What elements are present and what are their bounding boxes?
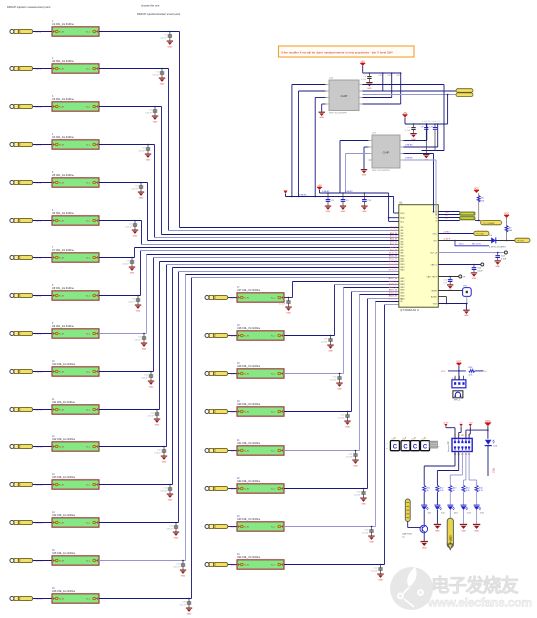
svg-text:U10 CNL_1to 3rdOne: U10 CNL_1to 3rdOne <box>52 363 76 366</box>
svg-text:U17 CNL_Vin 3rdOne: U17 CNL_Vin 3rdOne <box>237 289 261 292</box>
svg-text:C: C <box>423 444 428 450</box>
svg-text:C: C <box>393 444 398 450</box>
svg-text:GND: GND <box>328 350 333 352</box>
svg-text:4.7k: 4.7k <box>479 490 483 492</box>
svg-text:U22: U22 <box>412 439 415 441</box>
svg-text:U21 CNL_Vin 3rdOne: U21 CNL_Vin 3rdOne <box>237 442 261 445</box>
svg-text:GND: GND <box>133 235 138 237</box>
svg-text:U1: U1 <box>399 200 403 204</box>
svg-text:N_C: N_C <box>271 374 276 376</box>
svg-text:GND: GND <box>153 121 158 123</box>
svg-text:N_C: N_C <box>86 145 91 147</box>
svg-text:GND: GND <box>130 272 135 274</box>
svg-text:GND: GND <box>367 88 372 90</box>
svg-text:1 NA R6: 1 NA R6 <box>405 157 413 160</box>
svg-text:GND: GND <box>341 211 346 213</box>
svg-text:N_C: N_C <box>86 221 91 223</box>
svg-text:0.1uF: 0.1uF <box>477 270 483 272</box>
svg-text:AN2_IN: AN2_IN <box>390 229 398 232</box>
svg-text:N_C: N_C <box>271 336 276 338</box>
svg-text:U23 CNL_Vin 3rdOne: U23 CNL_Vin 3rdOne <box>237 518 261 521</box>
svg-text:0.01uF: 0.01uF <box>179 604 186 606</box>
svg-text:GND: GND <box>461 530 466 532</box>
svg-text:SDA: SDA <box>400 217 405 220</box>
svg-text:0.01uF: 0.01uF <box>134 339 141 341</box>
svg-text:N_IN: N_IN <box>59 107 64 109</box>
svg-text:CAP_2: CAP_2 <box>430 263 437 266</box>
svg-text:GND: GND <box>187 613 192 615</box>
svg-text:U4 CNL_1to 3rdOne: U4 CNL_1to 3rdOne <box>52 136 74 139</box>
svg-text:GND: GND <box>495 266 500 268</box>
svg-text:N_IN: N_IN <box>244 374 249 376</box>
svg-text:N_C: N_C <box>86 599 91 601</box>
svg-text:GND: GND <box>337 388 342 390</box>
svg-text:AN8_IN: AN8_IN <box>390 246 398 249</box>
svg-text:GND: GND <box>174 537 179 539</box>
svg-text:N_C: N_C <box>86 523 91 525</box>
svg-text:GND: GND <box>286 312 291 314</box>
svg-text:N_IN: N_IN <box>59 296 64 298</box>
svg-text:0.01uF: 0.01uF <box>138 150 145 152</box>
svg-text:U23: U23 <box>422 439 425 441</box>
svg-text:0.01uF: 0.01uF <box>131 188 138 190</box>
svg-text:0.01uF: 0.01uF <box>321 341 328 343</box>
svg-text:U14 CNL_1to 3rdOne: U14 CNL_1to 3rdOne <box>52 514 76 517</box>
svg-text:AN21_IN: AN21_IN <box>389 289 398 292</box>
svg-text:AN4_IN: AN4_IN <box>390 235 398 238</box>
svg-text:GND: GND <box>149 386 154 388</box>
svg-text:0.01uF: 0.01uF <box>152 74 159 76</box>
svg-text:电子发烧友: 电子发烧友 <box>431 575 519 596</box>
svg-text:GND: GND <box>422 547 427 549</box>
svg-text:U1 CNL_1to 3rdOne: U1 CNL_1to 3rdOne <box>52 23 74 26</box>
svg-text:GND: GND <box>361 503 366 505</box>
svg-text:N_IN: N_IN <box>244 298 249 300</box>
svg-text:1k: 1k <box>427 490 429 492</box>
svg-text:N_C: N_C <box>271 489 276 491</box>
svg-text:GND: GND <box>155 424 160 426</box>
svg-text:N_IN: N_IN <box>59 599 64 601</box>
svg-text:GND: GND <box>168 46 173 48</box>
svg-text:OUT_A: OUT_A <box>430 251 437 254</box>
svg-text:AN23_IN: AN23_IN <box>389 295 398 298</box>
svg-text:1 NA R5: 1 NA R5 <box>405 144 413 147</box>
svg-text:0.01uF: 0.01uF <box>362 532 369 534</box>
svg-text:www.elecfans.com: www.elecfans.com <box>427 596 532 610</box>
svg-text:GND: GND <box>142 348 147 350</box>
svg-text:N_C: N_C <box>271 451 276 453</box>
svg-text:2-R8.8: 2-R8.8 <box>444 231 451 233</box>
svg-text:GND: GND <box>362 211 367 213</box>
svg-text:VCC: VCC <box>456 361 461 363</box>
svg-text:TP_OSC: TP_OSC <box>476 234 485 236</box>
svg-text:TP_INT: TP_INT <box>517 241 525 243</box>
svg-text:4.7k: 4.7k <box>440 490 444 492</box>
svg-text:N_IN: N_IN <box>59 447 64 449</box>
svg-text:0.01uF: 0.01uF <box>346 456 353 458</box>
svg-text:GND: GND <box>146 159 151 161</box>
svg-text:CAB-PS(P): CAB-PS(P) <box>402 533 412 536</box>
svg-text:U20 CNL_Vin 3rdOne: U20 CNL_Vin 3rdOne <box>237 403 261 406</box>
svg-text:C: C <box>413 444 418 450</box>
svg-text:N_C: N_C <box>86 410 91 412</box>
svg-text:AN22_IN: AN22_IN <box>389 292 398 295</box>
svg-text:4.7k: 4.7k <box>466 490 470 492</box>
svg-text:GND: GND <box>472 278 477 280</box>
svg-text:OSC: OSC <box>432 233 437 235</box>
svg-text:N_C: N_C <box>86 485 91 487</box>
svg-text:N_C: N_C <box>86 107 91 109</box>
svg-text:N_IN: N_IN <box>244 336 249 338</box>
svg-text:+5V: +5V <box>445 212 449 214</box>
svg-text:U20: U20 <box>391 439 394 441</box>
svg-text:N_C: N_C <box>86 69 91 71</box>
svg-text:TP_COMMS: TP_COMMS <box>483 223 495 225</box>
svg-text:GND: GND <box>369 541 374 543</box>
svg-text:QT 60248-AS G: QT 60248-AS G <box>400 308 419 312</box>
svg-text:DPACP injection measurement po: DPACP injection measurement point <box>7 5 51 9</box>
svg-text:N_C: N_C <box>86 334 91 336</box>
svg-text:TP-LED3: TP-LED3 <box>451 535 453 545</box>
svg-text:AN14_IN: AN14_IN <box>389 263 398 266</box>
svg-text:GND: GND <box>168 499 173 501</box>
svg-text:GND: GND <box>160 83 165 85</box>
svg-text:N_C: N_C <box>271 298 276 300</box>
svg-text:U21: U21 <box>402 439 405 441</box>
svg-text:N_C: N_C <box>86 183 91 185</box>
svg-text:U18 CNL_Vin 3rdOne: U18 CNL_Vin 3rdOne <box>237 327 261 330</box>
svg-text:N_IN: N_IN <box>59 561 64 563</box>
svg-text:RED: RED <box>492 468 494 473</box>
svg-text:1k: 1k <box>453 490 455 492</box>
svg-text:U12 CNL_1to 3rdOne: U12 CNL_1to 3rdOne <box>52 438 76 441</box>
svg-text:1 NA R4: 1 NA R4 <box>299 193 307 196</box>
svg-text:SENS: SENS <box>431 290 437 292</box>
svg-text:AN9_IN: AN9_IN <box>390 249 398 252</box>
svg-text:AN12_IN: AN12_IN <box>389 257 398 260</box>
svg-text:AN19_IN: AN19_IN <box>389 283 398 286</box>
svg-text:VSS: VSS <box>433 303 438 305</box>
svg-text:GND: GND <box>345 426 350 428</box>
svg-text:+5V: +5V <box>317 185 322 187</box>
svg-text:CAP_TEST: CAP_TEST <box>426 275 437 278</box>
svg-text:NXP GTL2003PW: NXP GTL2003PW <box>329 113 348 115</box>
svg-text:CAP: CAP <box>429 126 434 129</box>
svg-text:N_C: N_C <box>86 447 91 449</box>
svg-text:0.01uF: 0.01uF <box>154 452 161 454</box>
svg-text:CHIP: CHIP <box>341 94 348 98</box>
svg-text:N_IN: N_IN <box>59 221 64 223</box>
svg-text:AN5_IN: AN5_IN <box>390 238 398 241</box>
svg-text:choose the one: choose the one <box>141 3 160 7</box>
svg-text:U16 CNL_1to 3rdOne: U16 CNL_1to 3rdOne <box>52 590 76 593</box>
svg-text:0.01uF: 0.01uF <box>354 494 361 496</box>
svg-text:AN3_IN: AN3_IN <box>390 232 398 235</box>
svg-text:U22 CNL_Vin 3rdOne: U22 CNL_Vin 3rdOne <box>237 480 261 483</box>
svg-text:0.01uF: 0.01uF <box>125 226 132 228</box>
svg-text:N_IN: N_IN <box>244 451 249 453</box>
svg-text:0.01uF: 0.01uF <box>338 417 345 419</box>
svg-text:AN18_IN: AN18_IN <box>389 280 398 283</box>
svg-text:AN7_IN: AN7_IN <box>390 243 398 246</box>
svg-text:AN24_IN: AN24_IN <box>389 297 398 300</box>
svg-text:N_C: N_C <box>271 565 276 567</box>
svg-text:0.01uF: 0.01uF <box>147 415 154 417</box>
svg-text:0.1uF: 0.1uF <box>501 258 507 260</box>
svg-text:U6 CNL_1to 3rdOne: U6 CNL_1to 3rdOne <box>52 212 74 215</box>
svg-text:GND: GND <box>378 579 383 581</box>
svg-text:N_IN: N_IN <box>59 410 64 412</box>
svg-text:VDD: VDD <box>400 213 405 215</box>
svg-text:N_IN: N_IN <box>59 372 64 374</box>
svg-text:0.01uF: 0.01uF <box>173 566 180 568</box>
svg-text:N_IN: N_IN <box>244 412 249 414</box>
svg-text:N_C: N_C <box>86 32 91 34</box>
svg-text:CHIP: CHIP <box>383 151 390 155</box>
svg-text:GND: GND <box>136 310 141 312</box>
svg-text:N_C: N_C <box>86 258 91 260</box>
svg-text:0.01uF: 0.01uF <box>145 112 152 114</box>
svg-text:U2 CNL_1to 3rdOne: U2 CNL_1to 3rdOne <box>52 60 74 63</box>
svg-text:N_IN: N_IN <box>59 523 64 525</box>
svg-text:U9 CNL_1to 3rdOne: U9 CNL_1to 3rdOne <box>52 325 74 328</box>
svg-text:0.1uF: 0.1uF <box>405 130 411 132</box>
svg-text:U5 CNL_1to 3rdOne: U5 CNL_1to 3rdOne <box>52 174 74 177</box>
svg-text:N_C: N_C <box>86 372 91 374</box>
svg-text:U24 CNL_Vin 3rdOne: U24 CNL_Vin 3rdOne <box>237 556 261 559</box>
svg-text:GND: GND <box>181 575 186 577</box>
svg-text:VCC: VCC <box>485 419 491 423</box>
svg-text:VCC: VCC <box>504 213 509 215</box>
svg-text:AN10_IN: AN10_IN <box>389 252 398 255</box>
svg-text:Jumper 8TP: Jumper 8TP <box>448 440 450 452</box>
svg-text:SPU-0: SPU-0 <box>454 400 461 402</box>
svg-text:U13 CNL_1to 3rdOne: U13 CNL_1to 3rdOne <box>52 476 76 479</box>
svg-text:GND: GND <box>162 461 167 463</box>
svg-text:GND: GND <box>319 117 324 119</box>
svg-text:AGND: AGND <box>431 295 437 298</box>
svg-text:N_IN: N_IN <box>59 69 64 71</box>
svg-text:N_IN: N_IN <box>244 565 249 567</box>
svg-text:NXP GTL2003PW: NXP GTL2003PW <box>372 170 391 172</box>
svg-text:DPACP injection/answer smart p: DPACP injection/answer smart point <box>137 12 180 16</box>
svg-text:AN20_IN: AN20_IN <box>389 286 398 289</box>
svg-text:0.01uF: 0.01uF <box>330 379 337 381</box>
svg-text:+5V: +5V <box>403 113 408 115</box>
svg-text:N_C: N_C <box>86 296 91 298</box>
svg-text:U15 CNL_1to 3rdOne: U15 CNL_1to 3rdOne <box>52 552 76 555</box>
svg-text:0.01uF: 0.01uF <box>141 377 148 379</box>
svg-text:GND: GND <box>464 315 469 317</box>
svg-text:VCC: VCC <box>474 188 479 190</box>
svg-text:CAP: CAP <box>396 74 401 77</box>
svg-text:N_IN: N_IN <box>59 32 64 34</box>
svg-text:N_IN: N_IN <box>59 485 64 487</box>
svg-text:N_IN: N_IN <box>244 489 249 491</box>
svg-text:GND: GND <box>139 197 144 199</box>
svg-text:N_C: N_C <box>86 561 91 563</box>
svg-text:4-.66.P: 4-.66.P <box>444 238 451 240</box>
svg-text:0.01uF: 0.01uF <box>279 303 286 305</box>
svg-text:GND: GND <box>353 465 358 467</box>
svg-text:N_IN: N_IN <box>244 527 249 529</box>
svg-text:AN15_IN: AN15_IN <box>389 266 398 269</box>
svg-text:If the rectifier 4 ea will be: If the rectifier 4 ea will be done measu… <box>281 50 393 54</box>
svg-text:N_IN: N_IN <box>59 183 64 185</box>
svg-text:0.01uF: 0.01uF <box>160 37 167 39</box>
svg-text:GND: GND <box>435 530 440 532</box>
svg-text:N_C: N_C <box>271 412 276 414</box>
svg-text:CAP,: CAP, <box>387 74 392 77</box>
svg-text:CAP,: CAP, <box>420 126 425 129</box>
svg-text:CAP,: CAP, <box>378 74 383 77</box>
svg-text:AN17_IN: AN17_IN <box>389 277 398 280</box>
svg-text:0.1uF: 0.1uF <box>361 79 367 81</box>
svg-text:0.01uF: 0.01uF <box>166 528 173 530</box>
svg-text:+5V: +5V <box>361 61 366 63</box>
svg-text:AN11_IN: AN11_IN <box>389 255 398 258</box>
svg-text:N_IN: N_IN <box>59 145 64 147</box>
svg-text:GND: GND <box>474 530 479 532</box>
svg-text:N_IN: N_IN <box>59 258 64 260</box>
svg-text:U11 CNL_1to 3rdOne: U11 CNL_1to 3rdOne <box>52 401 76 404</box>
svg-text:GND: GND <box>362 175 367 177</box>
svg-text:U3 CNL_1to 3rdOne: U3 CNL_1to 3rdOne <box>52 98 74 101</box>
svg-text:N_IN: N_IN <box>59 334 64 336</box>
svg-text:0.01uF: 0.01uF <box>122 263 129 265</box>
svg-text:AN6_IN: AN6_IN <box>390 240 398 243</box>
svg-text:AN16_IN: AN16_IN <box>389 269 398 272</box>
svg-text:U8 CNL_1to 3rdOne: U8 CNL_1to 3rdOne <box>52 287 74 290</box>
svg-text:U7 CNL_1to 3rdOne: U7 CNL_1to 3rdOne <box>52 249 74 252</box>
svg-text:GND: GND <box>326 211 331 213</box>
svg-text:U19 CNL_Vin 3rdOne: U19 CNL_Vin 3rdOne <box>237 365 261 368</box>
svg-text:N_C: N_C <box>271 527 276 529</box>
svg-text:VCC: VCC <box>441 371 446 373</box>
svg-text:INT_LPU: INT_LPU <box>472 244 481 246</box>
svg-text:C: C <box>403 444 408 450</box>
svg-text:AN1_IN: AN1_IN <box>390 226 398 229</box>
svg-text:1 NA R2: 1 NA R2 <box>345 190 353 193</box>
svg-text:0.01uF: 0.01uF <box>371 570 378 572</box>
svg-text:0.1uF C6, 0.1uF C7: 0.1uF C6, 0.1uF C7 <box>422 121 440 123</box>
svg-text:1 NA R1: 1 NA R1 <box>322 190 330 193</box>
svg-text:4.4E R2.4/5-NHE4: 4.4E R2.4/5-NHE4 <box>489 247 506 249</box>
svg-text:AN13_IN: AN13_IN <box>389 260 398 263</box>
svg-text:0.01uF: 0.01uF <box>160 490 167 492</box>
svg-text:0.01uF: 0.01uF <box>128 301 135 303</box>
